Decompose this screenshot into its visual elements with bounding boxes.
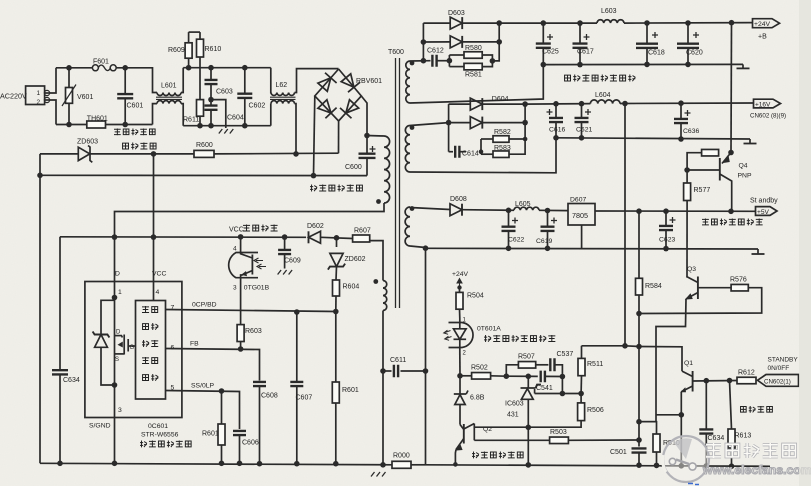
wire L601 upper right riser xyxy=(181,68,183,93)
label ON/OFF xyxy=(768,365,790,372)
optocoupler OT601A body xyxy=(449,323,474,348)
junction C625 bottom xyxy=(541,62,547,68)
svg-text:ZD602: ZD602 xyxy=(345,256,366,263)
junction Q2 emitter rail xyxy=(453,462,458,467)
capacitor C636 xyxy=(674,103,699,139)
junction C612 left xyxy=(421,58,427,64)
wire D604-2 wire xyxy=(449,122,470,124)
junction wireA left xyxy=(457,373,463,379)
inductor L62 xyxy=(270,68,296,126)
svg-text:0TG01B: 0TG01B xyxy=(244,285,270,292)
junction C611 right xyxy=(423,368,429,374)
wire LED to wireA xyxy=(459,351,461,376)
label VCC supply text xyxy=(229,225,278,234)
resistor R601 xyxy=(202,391,225,463)
wire D604-1 wire xyxy=(449,103,470,105)
zener 6.8B xyxy=(454,376,485,425)
junction C636 top xyxy=(678,100,684,106)
label OCP/BD xyxy=(192,302,217,309)
label SS/OLP xyxy=(191,383,215,390)
junction R bracket right xyxy=(490,58,496,64)
wire pin6 FB xyxy=(166,349,260,381)
junction C601 bottom xyxy=(122,122,128,128)
label pin numbers xyxy=(118,289,175,414)
junction C617 top xyxy=(577,20,583,26)
junction C620 bottom xyxy=(685,62,691,68)
svg-text:R612: R612 xyxy=(738,370,755,377)
resistor R506 xyxy=(528,394,604,428)
IC inner block xyxy=(136,301,166,400)
wire D604 outputs join xyxy=(483,104,525,123)
svg-text:C608: C608 xyxy=(261,393,278,400)
svg-text:Q3: Q3 xyxy=(687,266,696,273)
bridge diode bottom-left xyxy=(318,100,337,119)
junction C606 bottom xyxy=(237,461,243,467)
diode D603 lower xyxy=(450,36,462,48)
resistor R511 xyxy=(578,346,603,394)
wire Q1 collector xyxy=(639,347,682,372)
wire bottom hot rail xyxy=(40,463,392,465)
junction C625 top xyxy=(541,20,547,26)
svg-text:www.elecfans.com: www.elecfans.com xyxy=(702,463,811,477)
svg-text:C501: C501 xyxy=(610,449,627,456)
junction D603 out top xyxy=(496,20,502,26)
junction C611 left xyxy=(380,368,386,374)
capacitor C634 xyxy=(52,370,80,463)
wire bottom AC rail left xyxy=(56,124,87,126)
svg-text:R583: R583 xyxy=(494,145,511,152)
wire 24V rail right xyxy=(624,22,752,25)
label sampling error amp text xyxy=(484,335,555,342)
junction C636 bottom xyxy=(678,136,684,142)
diode D604 lower xyxy=(470,117,482,129)
wire VCC pin4 xyxy=(153,282,155,301)
wire aux bottom down xyxy=(382,311,384,466)
capacitor C611 xyxy=(383,357,426,377)
svg-text:+5V: +5V xyxy=(757,209,770,216)
svg-text:R582: R582 xyxy=(494,129,511,136)
wire Q2 collector to TL431 anode xyxy=(474,426,528,428)
wire Q1 emitter xyxy=(680,392,682,415)
svg-text:C620: C620 xyxy=(686,50,703,57)
wire D602 to R607 xyxy=(321,237,353,238)
svg-text:F601: F601 xyxy=(93,59,109,66)
junction C600 top node xyxy=(364,133,370,139)
resistor R510 xyxy=(653,434,680,465)
transistor Q4 PNP xyxy=(720,153,752,212)
junction C607 bottom xyxy=(294,461,300,467)
capacitor C606 xyxy=(233,431,259,463)
diode D608 xyxy=(450,196,467,216)
wire W1 top to C612 xyxy=(410,60,431,62)
wire L601 lower right riser xyxy=(181,104,183,126)
svg-text:D602: D602 xyxy=(307,223,324,230)
label OTG01B pins xyxy=(233,246,270,292)
wire W3 bottom lead xyxy=(410,245,428,251)
wire Q2 base xyxy=(460,425,464,430)
junction C623 bottom xyxy=(663,246,669,252)
svg-text:2: 2 xyxy=(37,99,41,106)
label standby control xyxy=(741,406,773,413)
wire AC pin2 to bottom rail xyxy=(50,100,56,125)
capacitor C600 xyxy=(345,136,376,176)
junction C604 bottom xyxy=(208,123,214,129)
junction Q4 collector rail xyxy=(728,209,734,215)
label startup circuit text xyxy=(123,143,156,150)
capacitor C608 xyxy=(253,382,278,464)
junction D603-2 anode xyxy=(421,39,427,45)
capacitor C541 xyxy=(536,371,562,392)
svg-text:D608: D608 xyxy=(450,196,467,203)
svg-text:D: D xyxy=(116,330,121,336)
wire R511 top xyxy=(582,345,626,347)
capacitor C618 xyxy=(636,23,665,64)
svg-text:+24V: +24V xyxy=(452,271,469,278)
junction C601 top xyxy=(122,65,128,71)
wire startup rail AC2 xyxy=(40,153,78,155)
label FB xyxy=(190,341,199,348)
junction C619 bottom xyxy=(545,246,551,252)
label standby buck text xyxy=(472,452,523,459)
label anti-interference text xyxy=(114,129,155,136)
wire L601 lower left xyxy=(153,104,158,125)
svg-text:C619: C619 xyxy=(536,238,552,245)
svg-text:C600: C600 xyxy=(345,164,362,171)
svg-text:D604: D604 xyxy=(492,96,509,103)
svg-text:+24V: +24V xyxy=(754,21,771,28)
capacitor C601 xyxy=(117,68,143,125)
connector AC220V input xyxy=(0,86,50,106)
svg-text:R502: R502 xyxy=(471,365,488,372)
svg-text:Q4: Q4 xyxy=(739,163,748,170)
resistor R611 xyxy=(183,57,204,126)
junction C501 bottom xyxy=(636,462,642,468)
svg-text:R613: R613 xyxy=(735,433,752,440)
svg-text:7805: 7805 xyxy=(572,211,588,220)
junction C618 bottom xyxy=(644,62,650,68)
svg-text:D603: D603 xyxy=(448,10,465,17)
junction aux gnd xyxy=(380,462,386,468)
wire 16V rail right xyxy=(620,102,753,105)
junction Q1 emitter node xyxy=(679,412,685,418)
junction L604 sense xyxy=(622,343,628,349)
wire L604 sense drop xyxy=(624,104,626,346)
wire Q1 emitter drop xyxy=(680,415,682,466)
junction TL431 top xyxy=(526,374,532,380)
junction C618 top xyxy=(644,20,650,26)
svg-text:0N/0FF: 0N/0FF xyxy=(768,365,790,372)
secondary 1 phase dot xyxy=(410,61,415,66)
wire D608 to L605 xyxy=(463,209,515,212)
wire top rail to L601 xyxy=(152,68,157,93)
wire R584 net bottom xyxy=(638,295,640,447)
svg-text:C625: C625 xyxy=(542,49,559,56)
optocoupler OTG01B transistor xyxy=(241,237,266,288)
svg-text:C604: C604 xyxy=(227,115,244,122)
junction R582 node xyxy=(523,137,528,142)
IC internal zener xyxy=(93,300,115,385)
junction L604 out xyxy=(622,101,628,107)
resistor R607 xyxy=(353,228,371,243)
junction C602 top xyxy=(242,65,248,71)
svg-text:R600: R600 xyxy=(196,142,213,149)
svg-text:S/GND: S/GND xyxy=(89,423,111,430)
junction hot ground left xyxy=(37,173,43,179)
svg-text:L603: L603 xyxy=(601,8,617,15)
wire pin1 internal xyxy=(114,282,116,464)
IC inner text xyxy=(142,306,158,381)
resistor R604 xyxy=(333,267,360,312)
svg-text:C537: C537 xyxy=(557,351,574,358)
junction C614 right xyxy=(479,149,484,154)
wire Q3 base to R576 xyxy=(698,287,731,289)
resistor R507 xyxy=(506,354,535,377)
wire bridge right corner to C600 node xyxy=(361,96,367,136)
svg-text:ZD603: ZD603 xyxy=(77,139,98,146)
svg-text:SS/0LP: SS/0LP xyxy=(191,383,215,390)
junction C602 bottom xyxy=(242,123,248,129)
svg-text:FB: FB xyxy=(190,341,199,348)
wire R58x right bracket xyxy=(482,55,492,67)
ground C609 slashes xyxy=(278,270,293,275)
transformer T600 secondary winding 3 xyxy=(405,207,410,246)
ground C604 slashes xyxy=(219,129,234,134)
svg-text:3: 3 xyxy=(118,407,122,414)
transistor Q1 xyxy=(680,360,693,392)
wire left rail vertical xyxy=(39,154,41,463)
junction C603-C604 xyxy=(208,97,214,103)
junction R604 to OCP wire xyxy=(333,309,339,315)
junction TL431 anode xyxy=(526,425,532,431)
svg-text:R601: R601 xyxy=(342,387,359,394)
svg-text:L601: L601 xyxy=(161,83,177,90)
junction AC2 drop xyxy=(293,151,299,157)
wire R502 to node xyxy=(491,375,507,377)
connector +24V arrow xyxy=(753,19,780,41)
svg-text:C621: C621 xyxy=(576,127,592,134)
svg-text:STANDBY: STANDBY xyxy=(768,357,799,364)
wire R583 right to node xyxy=(509,123,525,155)
inductor L601 xyxy=(156,83,182,104)
svg-text:VCC: VCC xyxy=(152,271,166,278)
svg-text:Q1: Q1 xyxy=(684,360,693,367)
wire L62 top to bridge top xyxy=(295,69,339,93)
IC internal mosfet xyxy=(115,330,136,364)
svg-text:R506: R506 xyxy=(587,407,604,414)
junction R510 bottom xyxy=(654,463,660,469)
inductor L603 xyxy=(597,8,624,23)
junction TL431 rail xyxy=(526,462,532,468)
ground 5V bar xyxy=(752,249,765,254)
svg-text:+16V: +16V xyxy=(755,102,771,109)
svg-text:R611: R611 xyxy=(183,117,199,124)
svg-text:431: 431 xyxy=(507,412,519,419)
wire L62 bottom to AC2 line xyxy=(295,104,297,154)
junction V601 top xyxy=(66,65,72,71)
diode D604 upper xyxy=(470,96,508,110)
junction opto collector xyxy=(238,234,244,240)
wire R510 stub xyxy=(639,422,657,434)
resistor R577 xyxy=(684,170,711,277)
junction internal top xyxy=(112,295,118,301)
junction C621 bottom xyxy=(579,135,585,141)
wire VCC riser xyxy=(153,154,155,282)
wire W3 top to D608 xyxy=(410,208,450,210)
svg-text:TH601: TH601 xyxy=(87,116,108,123)
wire drain rail xyxy=(115,203,385,282)
wire R582 right to node xyxy=(509,138,525,140)
resistor R503 xyxy=(474,429,639,444)
junction pin3 bottom rail xyxy=(112,461,118,467)
svg-text:VCC: VCC xyxy=(229,227,244,234)
svg-text:C612: C612 xyxy=(427,48,444,55)
wire 16V rail left xyxy=(525,103,590,106)
wire C603 mid to ground xyxy=(211,100,226,128)
resistor R000 xyxy=(392,453,411,469)
svg-text:L62: L62 xyxy=(276,82,288,89)
junction plus24 branch xyxy=(729,20,735,26)
watermark elecfans logo xyxy=(663,436,811,482)
label D xyxy=(115,271,120,278)
junction C634b top xyxy=(704,378,710,384)
wire aux top to R607 xyxy=(370,241,383,281)
junction R bracket left xyxy=(447,58,453,64)
wire W2 bottom riser xyxy=(410,138,556,173)
junction bridge left to hot ground xyxy=(311,173,317,179)
svg-text:L605: L605 xyxy=(515,201,531,208)
wire VCC rail xyxy=(60,236,306,239)
junction C634b bottom xyxy=(704,463,710,469)
bridge diode top-right xyxy=(341,74,360,92)
inductor L605 xyxy=(514,201,539,210)
junction R576 loop left xyxy=(636,311,642,317)
resistor R584 xyxy=(636,278,662,295)
junction internal S xyxy=(112,382,118,388)
diode ZD602 xyxy=(328,238,366,270)
svg-text:4: 4 xyxy=(156,289,160,296)
wire F601 to C601 xyxy=(116,67,152,69)
resistor R502 xyxy=(460,365,491,380)
junction C617 bottom xyxy=(577,62,583,68)
label power module text xyxy=(140,441,191,448)
secondary 2 phase dot xyxy=(410,125,415,130)
secondary 3 phase dot xyxy=(410,206,415,211)
junction Q4 emitter xyxy=(728,150,734,156)
svg-text:D: D xyxy=(115,271,120,278)
wire pin7 OCP xyxy=(166,310,336,312)
svg-text:R576: R576 xyxy=(730,277,747,284)
capacitor C609 xyxy=(278,237,301,268)
svg-text:G: G xyxy=(130,345,135,351)
junction opto2 drop xyxy=(679,463,685,469)
svg-text:R581: R581 xyxy=(465,72,482,79)
scan edge right band xyxy=(799,0,811,486)
junction C634 bottom xyxy=(57,461,63,467)
junction R613 top xyxy=(727,378,733,384)
svg-text:CN602 (8)(9): CN602 (8)(9) xyxy=(750,113,786,120)
label STANDBY xyxy=(768,357,799,364)
svg-text:T600: T600 xyxy=(388,49,404,56)
svg-text:R000: R000 xyxy=(393,453,410,460)
wire R000 to cold riser xyxy=(411,464,426,466)
wire D603 outputs join xyxy=(463,23,500,42)
svg-text:C609: C609 xyxy=(284,258,301,265)
transformer T600 aux winding xyxy=(383,281,387,311)
wire cold bottom rail xyxy=(426,465,771,467)
svg-text:R609: R609 xyxy=(168,47,185,54)
svg-text:STR-W6556: STR-W6556 xyxy=(141,432,179,439)
wire bracket to diode node xyxy=(492,42,499,61)
wire +24V down to Q4 xyxy=(730,23,733,153)
snubber R580 xyxy=(449,45,482,67)
wire 24V rail left xyxy=(499,22,597,24)
wire Q2 emitter to rail xyxy=(454,450,457,465)
transformer T600 secondary winding 2 xyxy=(405,126,410,173)
svg-text:C541: C541 xyxy=(536,385,553,392)
junction D604-2 anode xyxy=(446,120,452,126)
svg-text:0T601A: 0T601A xyxy=(477,326,501,333)
inductor L604 xyxy=(590,92,620,104)
ground primary slashes xyxy=(371,472,386,477)
bridge diode top-left xyxy=(318,73,337,92)
ground 24V bar xyxy=(737,64,750,68)
svg-text:C636: C636 xyxy=(683,128,699,135)
junction R603 FB xyxy=(238,346,244,352)
bridge rectifier RBV601 outline xyxy=(315,69,362,121)
transformer T600 primary winding xyxy=(367,136,390,204)
optocoupler OT601A LED xyxy=(444,318,467,357)
junction R503 node xyxy=(636,437,642,443)
capacitor C619 xyxy=(536,211,557,249)
svg-text:R503: R503 xyxy=(550,429,567,436)
junction R601 top xyxy=(219,388,225,394)
svg-text:7: 7 xyxy=(171,305,175,312)
svg-text:C634: C634 xyxy=(708,435,725,442)
wire D604 left vertical xyxy=(448,104,450,152)
transistor Q2 xyxy=(455,424,492,451)
svg-text:1: 1 xyxy=(37,90,41,97)
capacitor C607 xyxy=(290,312,312,464)
junction R584 top xyxy=(636,208,642,214)
junction D603 out bottom xyxy=(496,39,502,45)
transistor Q3 xyxy=(685,266,698,300)
svg-text:C622: C622 xyxy=(508,237,524,244)
junction wireA right xyxy=(560,374,566,380)
wire Q3 emitter path xyxy=(639,299,686,422)
label RBV601 xyxy=(356,78,382,85)
capacitor C620 xyxy=(677,23,703,64)
capacitor C603 xyxy=(205,68,233,100)
wire Q3 collector xyxy=(686,276,689,279)
svg-text:D607: D607 xyxy=(570,197,586,204)
junction C622 top xyxy=(506,208,512,214)
resistor R603 xyxy=(237,325,262,349)
capacitor C621 xyxy=(575,104,593,138)
svg-text:0C601: 0C601 xyxy=(148,423,168,430)
connector +5V arrow xyxy=(750,198,778,217)
svg-text:R601: R601 xyxy=(202,431,219,438)
wire C537 drop xyxy=(561,377,563,394)
scan artifact blue marks xyxy=(688,484,699,485)
resistor R609 xyxy=(168,32,192,68)
svg-text:L604: L604 xyxy=(595,92,611,99)
svg-text:C607: C607 xyxy=(296,395,313,402)
svg-text:C602: C602 xyxy=(249,103,266,110)
shunt reg IC603 431 xyxy=(505,376,541,427)
snubber R582 xyxy=(481,129,511,154)
resistor R577 top resistor xyxy=(702,149,719,156)
junction R613 bottom xyxy=(729,463,735,469)
